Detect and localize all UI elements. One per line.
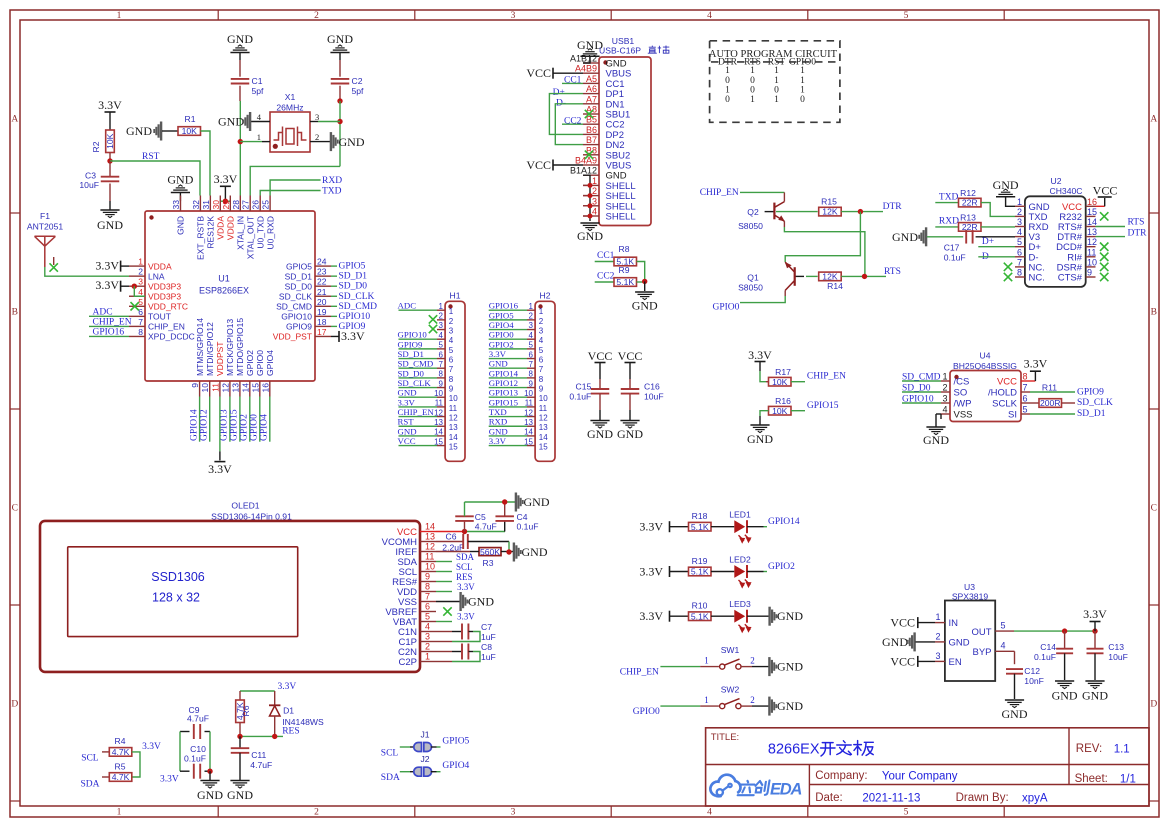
svg-text:GPIO2: GPIO2 (489, 339, 514, 349)
svg-text:12: 12 (220, 383, 230, 393)
svg-text:OUT: OUT (971, 627, 991, 638)
svg-text:R19: R19 (692, 556, 708, 566)
wire R12 to U2 TXD (981, 203, 1015, 217)
svg-text:2: 2 (138, 267, 143, 277)
svg-text:A: A (11, 115, 18, 125)
svg-text:7: 7 (539, 365, 544, 374)
svg-text:8266EX: 8266EX (768, 742, 820, 758)
svg-text:1: 1 (449, 307, 454, 316)
resistor R3 560K (436, 551, 470, 553)
svg-text:GND: GND (227, 32, 253, 46)
svg-text:F1: F1 (40, 211, 50, 221)
svg-text:0.1uF: 0.1uF (184, 754, 206, 764)
ground flag at SW1 (768, 657, 770, 676)
svg-text:5pf: 5pf (252, 86, 265, 96)
svg-text:J1: J1 (420, 730, 429, 740)
svg-text:VCC: VCC (618, 349, 643, 363)
svg-text:10: 10 (1087, 257, 1097, 267)
svg-text:7: 7 (1017, 257, 1022, 267)
wire U0_RXD to TXD label (270, 180, 321, 196)
svg-text:14: 14 (240, 383, 250, 393)
svg-text:GPIO4: GPIO4 (489, 320, 515, 330)
svg-text:7: 7 (138, 317, 143, 327)
svg-text:1: 1 (539, 307, 544, 316)
node DTR junction (858, 209, 863, 214)
svg-text:4: 4 (449, 336, 454, 345)
svg-text:B6: B6 (586, 125, 597, 135)
svg-text:EDA: EDA (770, 781, 802, 799)
svg-text:GND: GND (747, 432, 773, 446)
svg-text:GND: GND (923, 433, 949, 447)
power 3.3V below U1 pin11 (219, 397, 221, 452)
svg-text:4.7K: 4.7K (112, 772, 130, 782)
svg-text:0: 0 (800, 95, 805, 105)
svg-text:SD_D0: SD_D0 (398, 368, 425, 378)
svg-text:10uF: 10uF (644, 392, 664, 402)
svg-text:C12: C12 (1024, 666, 1040, 676)
frame row ticks (10, 212, 20, 214)
svg-text:VDDA: VDDA (148, 261, 172, 271)
wire OLED VCC pin14 to C5/C4 (436, 531, 465, 533)
svg-text:GPIO15: GPIO15 (807, 401, 839, 411)
svg-text:2021-11-13: 2021-11-13 (862, 793, 920, 805)
node C5 junction (462, 529, 467, 534)
wire C17 to U2 V3 (976, 236, 1015, 238)
wire Q1 collector to GPIO0 (784, 290, 786, 296)
node R3/C6 GND junction (506, 549, 511, 554)
svg-text:26MHz: 26MHz (276, 103, 303, 113)
wire U4 /HOLD to GPIO9 (1030, 391, 1075, 393)
svg-text:CHIP_EN: CHIP_EN (148, 322, 185, 332)
svg-text:C10: C10 (190, 744, 206, 754)
chip U1 box (145, 211, 315, 381)
svg-text:8: 8 (1023, 372, 1028, 382)
svg-text:4.7uF: 4.7uF (475, 522, 497, 532)
svg-text:1: 1 (725, 85, 730, 95)
svg-text:SI: SI (1008, 410, 1017, 421)
svg-text:3.3V: 3.3V (748, 348, 772, 362)
svg-text:XPD_DCDC: XPD_DCDC (148, 332, 195, 342)
svg-text:CHIP_EN: CHIP_EN (807, 372, 846, 382)
svg-text:0.1uF: 0.1uF (944, 253, 966, 263)
power VCC at U2 pin16 (1096, 205, 1105, 207)
svg-text:5: 5 (1017, 237, 1022, 247)
svg-text:3: 3 (511, 11, 516, 21)
svg-text:1: 1 (774, 95, 779, 105)
svg-text:1: 1 (800, 66, 805, 76)
no-connect X on U1 pin5 (131, 302, 139, 310)
svg-text:D+: D+ (982, 237, 994, 247)
svg-text:GND: GND (1082, 689, 1108, 703)
svg-text:5: 5 (904, 11, 909, 21)
svg-text:1: 1 (117, 808, 122, 818)
svg-text:16: 16 (260, 383, 270, 393)
svg-text:GPIO14: GPIO14 (489, 368, 519, 378)
svg-text:13: 13 (1087, 227, 1097, 237)
svg-text:22R: 22R (962, 198, 978, 208)
svg-text:SO: SO (954, 388, 968, 399)
node D1 junction (272, 734, 277, 739)
svg-text:SHELL: SHELL (606, 212, 636, 223)
capacitor C5 (464, 521, 466, 532)
svg-text:SD_CMD: SD_CMD (339, 302, 378, 312)
svg-text:GND: GND (522, 545, 548, 559)
svg-text:B: B (12, 308, 18, 318)
svg-text:5: 5 (138, 297, 143, 307)
svg-text:Company:: Company: (815, 770, 867, 782)
svg-text:SCL: SCL (81, 754, 99, 764)
svg-text:GPIO5: GPIO5 (286, 261, 312, 271)
svg-text:GPIO4: GPIO4 (265, 350, 275, 376)
svg-text:1: 1 (800, 76, 805, 86)
node C14 junction (1062, 628, 1067, 633)
svg-text:200R: 200R (1040, 398, 1061, 408)
net label 3.3V at OLED pin8 VDD (436, 591, 452, 593)
svg-text:3.3V: 3.3V (639, 520, 663, 534)
svg-text:R13: R13 (960, 213, 976, 223)
wire R13 to U2 RXD (981, 226, 1015, 228)
wire USB GND A1B12 to earth (583, 56, 590, 63)
svg-text:5.1K: 5.1K (691, 567, 709, 577)
svg-text:4: 4 (707, 11, 712, 21)
node C4 top junction (502, 499, 507, 504)
svg-text:C13: C13 (1108, 642, 1124, 652)
svg-text:6: 6 (1017, 247, 1022, 257)
capacitor C12 (1006, 668, 1023, 670)
svg-text:H2: H2 (540, 291, 551, 301)
svg-text:MTDO/GPIO15: MTDO/GPIO15 (235, 318, 245, 376)
svg-text:2: 2 (315, 132, 319, 142)
U1 left pins (129, 265, 145, 267)
svg-text:MTCK/GPIO13: MTCK/GPIO13 (225, 319, 235, 376)
svg-text:3.3V: 3.3V (489, 436, 507, 446)
ground flag at LED3 (747, 615, 769, 617)
title block outline (706, 728, 1149, 806)
svg-text:SW2: SW2 (721, 685, 740, 695)
ground below C15 (599, 410, 601, 420)
svg-text:VCC: VCC (1093, 184, 1118, 198)
wire C2 to X1 pin3 net (339, 101, 341, 166)
U2 left pins (1015, 205, 1025, 207)
ground below C14 (1055, 680, 1074, 682)
svg-text:GPIO0: GPIO0 (713, 303, 740, 313)
svg-text:1: 1 (935, 612, 940, 622)
wire Q2 base to R15 (776, 211, 818, 213)
svg-text:4.7K: 4.7K (112, 747, 130, 757)
wire R1 to U1 pin31 (201, 131, 211, 196)
svg-text:GND: GND (777, 660, 803, 674)
svg-text:TXD: TXD (322, 187, 342, 197)
svg-text:GND: GND (339, 135, 365, 149)
svg-text:VDD3P3: VDD3P3 (148, 281, 181, 291)
svg-text:15: 15 (539, 443, 548, 452)
svg-text:5.1K: 5.1K (691, 522, 709, 532)
svg-text:GND: GND (227, 788, 253, 802)
svg-text:13: 13 (230, 383, 240, 393)
svg-text:MTDI/GPIO12: MTDI/GPIO12 (205, 322, 215, 376)
svg-text:24: 24 (317, 257, 327, 267)
svg-text:GPIO9: GPIO9 (1077, 388, 1104, 398)
svg-text:SD_D0: SD_D0 (339, 282, 368, 292)
svg-text:GPIO4: GPIO4 (442, 761, 469, 771)
svg-text:15: 15 (250, 383, 260, 393)
svg-text:3: 3 (439, 321, 444, 330)
svg-text:GND: GND (218, 115, 244, 129)
resistor R6 vertical (236, 700, 245, 723)
svg-text:USB1: USB1 (612, 36, 635, 46)
U1 right pins (315, 265, 331, 267)
svg-text:4: 4 (942, 405, 947, 415)
svg-text:SD_CLK: SD_CLK (398, 378, 432, 388)
svg-text:12: 12 (1087, 237, 1097, 247)
svg-text:1: 1 (592, 176, 597, 186)
svg-text:C4: C4 (517, 512, 528, 522)
svg-text:RST: RST (398, 417, 415, 427)
svg-text:CHIP_EN: CHIP_EN (620, 668, 659, 678)
svg-text:C17: C17 (944, 243, 960, 253)
svg-text:C3: C3 (85, 171, 96, 181)
svg-text:LED1: LED1 (729, 510, 751, 520)
svg-text:CC2: CC2 (597, 272, 615, 282)
svg-text:2: 2 (539, 317, 544, 326)
ground flag right of C4 (515, 493, 517, 512)
svg-text:128 x 32: 128 x 32 (152, 591, 200, 605)
svg-text:3: 3 (449, 327, 454, 336)
svg-text:19: 19 (317, 307, 327, 317)
resistor R14 (819, 272, 842, 281)
ground below R16 (760, 411, 769, 416)
svg-text:4: 4 (138, 287, 143, 297)
svg-text:U3: U3 (964, 582, 975, 592)
svg-text:2: 2 (425, 642, 430, 652)
ground below C16 (629, 410, 631, 420)
svg-text:3: 3 (511, 808, 516, 818)
svg-text:ADC: ADC (398, 301, 417, 311)
svg-text:1: 1 (529, 302, 534, 311)
svg-text:Date:: Date: (815, 792, 843, 804)
wire U4 SI to SD_D1 (1030, 413, 1075, 415)
svg-text:23: 23 (317, 267, 327, 277)
ground flag at SW2 (768, 697, 770, 716)
svg-text:1: 1 (774, 66, 779, 76)
svg-text:5: 5 (539, 346, 544, 355)
svg-text:CHIP_EN: CHIP_EN (398, 407, 435, 417)
U1 top pin stubs (180, 196, 182, 212)
svg-text:A1B12: A1B12 (570, 54, 597, 64)
capacitor C8 between C2N/C2P (436, 651, 452, 653)
svg-text:4: 4 (592, 207, 597, 217)
svg-text:4: 4 (1000, 641, 1005, 651)
svg-text:SD_CMD: SD_CMD (398, 359, 434, 369)
svg-text:GPIO0: GPIO0 (250, 414, 260, 441)
svg-text:R6: R6 (241, 705, 251, 716)
svg-text:7: 7 (449, 365, 454, 374)
svg-text:X1: X1 (285, 92, 296, 102)
svg-text:GND: GND (617, 427, 643, 441)
svg-text:8: 8 (1017, 268, 1022, 278)
svg-text:10K: 10K (182, 126, 198, 136)
svg-text:16: 16 (1087, 197, 1097, 207)
svg-text:GND: GND (632, 299, 658, 313)
svg-text:R2: R2 (91, 141, 101, 152)
svg-text:5: 5 (449, 346, 454, 355)
svg-text:0: 0 (725, 76, 730, 86)
svg-text:RXD: RXD (939, 217, 959, 227)
svg-text:XTAL_OUT: XTAL_OUT (245, 216, 255, 259)
svg-text:GND: GND (97, 218, 123, 232)
svg-text:4: 4 (529, 331, 534, 340)
svg-text:17: 17 (317, 327, 327, 337)
svg-text:GPIO10: GPIO10 (902, 395, 934, 405)
svg-text:GPIO5: GPIO5 (442, 736, 469, 746)
svg-text:9: 9 (1087, 268, 1092, 278)
svg-text:GND: GND (489, 359, 508, 369)
svg-text:9: 9 (425, 572, 430, 582)
svg-text:U2: U2 (1051, 176, 1062, 186)
svg-text:GPIO14: GPIO14 (768, 517, 800, 527)
svg-text:2: 2 (935, 631, 940, 641)
svg-text:33: 33 (171, 200, 181, 210)
svg-text:8: 8 (439, 370, 444, 379)
svg-text:1: 1 (750, 95, 755, 105)
svg-text:21: 21 (317, 287, 327, 297)
node C2 junction dot (337, 98, 342, 103)
wire C5/C4 tops to GND flag (465, 501, 516, 503)
svg-text:4: 4 (539, 336, 544, 345)
svg-text:RXD: RXD (322, 176, 342, 186)
svg-text:VCC: VCC (997, 377, 1017, 388)
capacitor C17 (965, 230, 967, 244)
svg-text:1: 1 (725, 66, 730, 76)
wire RST net to U1 pin32 (110, 161, 200, 196)
svg-text:31: 31 (201, 200, 211, 210)
antenna no-connect stub with X (53, 257, 55, 265)
svg-text:3: 3 (529, 321, 534, 330)
svg-text:GND: GND (577, 229, 603, 243)
svg-text:R8: R8 (619, 244, 630, 254)
svg-text:3.3V: 3.3V (489, 349, 507, 359)
capacitor C2 (339, 60, 341, 77)
svg-text:11: 11 (210, 383, 220, 392)
wire C6 to GND net (468, 541, 509, 543)
svg-text:13: 13 (425, 532, 435, 542)
node C10 junction (207, 769, 212, 774)
svg-text:2: 2 (529, 312, 534, 321)
svg-text:1: 1 (704, 695, 709, 705)
svg-text:14: 14 (1087, 217, 1097, 227)
title CJK kai-fa-ban (821, 741, 874, 756)
svg-text:Your Company: Your Company (882, 771, 958, 783)
svg-text:8: 8 (138, 327, 143, 337)
display OLED1 screen box (68, 547, 298, 637)
U1 bottom pins (199, 381, 201, 397)
wire U2 RTS# to RTS label (1096, 226, 1126, 228)
capacitor C11 (239, 736, 241, 747)
svg-text:GPIO5: GPIO5 (489, 310, 515, 320)
wire R2 to RST junction (109, 153, 111, 162)
svg-text:3.3V: 3.3V (457, 582, 475, 592)
svg-text:9: 9 (449, 385, 454, 394)
svg-text:GPIO2: GPIO2 (768, 562, 795, 572)
svg-text:1: 1 (138, 257, 143, 267)
svg-text:28: 28 (231, 200, 241, 210)
ground flag right of R3 (513, 543, 515, 562)
svg-text:3: 3 (942, 394, 947, 404)
svg-text:U1: U1 (218, 274, 230, 284)
svg-text:1: 1 (1017, 197, 1022, 207)
svg-text:LED3: LED3 (729, 599, 751, 609)
svg-text:4.7uF: 4.7uF (250, 760, 272, 770)
capacitor C16 (629, 379, 631, 389)
svg-text:D: D (1150, 700, 1157, 710)
svg-text:6: 6 (529, 350, 534, 359)
svg-text:6: 6 (425, 602, 430, 612)
wire U2 DTR# to DTR label (1096, 236, 1126, 238)
svg-text:GPIO15: GPIO15 (230, 409, 240, 441)
svg-text:8: 8 (425, 582, 430, 592)
wire C9/C10 right leg (209, 732, 211, 772)
svg-text:3.3V: 3.3V (98, 98, 122, 112)
svg-text:5: 5 (425, 612, 430, 622)
svg-text:6: 6 (1023, 394, 1028, 404)
svg-text:12: 12 (449, 414, 458, 423)
ground below C13 (1085, 680, 1104, 682)
no-connect X on SBU2 (585, 151, 593, 159)
svg-text:5.1K: 5.1K (616, 277, 634, 287)
svg-text:SCLK: SCLK (992, 399, 1017, 410)
wire DTR to Q1 emitter (785, 212, 860, 262)
svg-text:5: 5 (529, 341, 534, 350)
svg-text:10: 10 (539, 394, 548, 403)
svg-text:5: 5 (439, 341, 444, 350)
svg-text:GND: GND (468, 595, 494, 609)
no-connect X at OLED pin6 VBREF (443, 607, 451, 615)
svg-text:SD_D1: SD_D1 (1077, 409, 1106, 419)
svg-text:RES: RES (282, 727, 299, 737)
wire C9/C10 left leg (179, 732, 181, 772)
svg-text:4: 4 (439, 331, 444, 340)
svg-text:6: 6 (539, 356, 544, 365)
svg-text:8: 8 (529, 370, 534, 379)
svg-text:3.3V: 3.3V (398, 397, 416, 407)
node RTS junction (862, 274, 867, 279)
svg-text:3.3V: 3.3V (95, 259, 119, 273)
svg-text:3: 3 (539, 327, 544, 336)
svg-text:2: 2 (1017, 207, 1022, 217)
svg-text:0.1uF: 0.1uF (517, 522, 539, 532)
svg-text:9: 9 (539, 385, 544, 394)
svg-text:5: 5 (1023, 405, 1028, 415)
svg-text:13: 13 (539, 423, 548, 432)
svg-text:1: 1 (774, 76, 779, 86)
OLED1 pins (420, 531, 436, 533)
no-connect X U2 pins 12/11/10/9 (1100, 243, 1108, 251)
svg-text:SD_CLK: SD_CLK (279, 291, 312, 301)
svg-text:C2P: C2P (399, 657, 417, 668)
capacitor C13 (1094, 631, 1096, 649)
svg-text:B7: B7 (586, 135, 597, 145)
svg-text:SDA: SDA (456, 552, 475, 562)
svg-text:S8050: S8050 (738, 221, 763, 231)
svg-text:/CS: /CS (954, 377, 970, 388)
svg-text:5.1K: 5.1K (691, 611, 709, 621)
net label SCL at OLED pin10 (436, 571, 452, 573)
svg-text:22: 22 (317, 277, 327, 287)
svg-text:SW1: SW1 (721, 645, 740, 655)
svg-text:C5: C5 (475, 512, 486, 522)
svg-text:S8050: S8050 (738, 283, 763, 293)
svg-text:R1: R1 (185, 114, 196, 124)
